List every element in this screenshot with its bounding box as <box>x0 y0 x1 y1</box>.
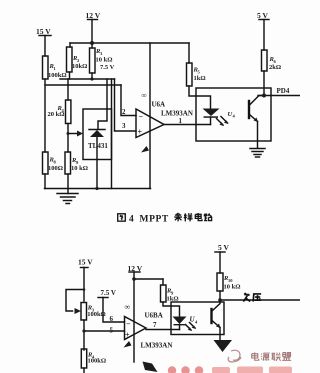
svg-text:5: 5 <box>110 327 114 335</box>
svg-text:1kΩ: 1kΩ <box>194 75 206 82</box>
svg-text:PD4: PD4 <box>277 87 290 95</box>
svg-text:100kΩ: 100kΩ <box>87 311 106 318</box>
svg-text:+: + <box>125 331 130 340</box>
svg-text:10 kΩ: 10 kΩ <box>96 57 113 64</box>
svg-text:100kΩ: 100kΩ <box>88 358 107 365</box>
svg-text:12 V: 12 V <box>128 264 143 273</box>
svg-text:20 kΩ: 20 kΩ <box>48 111 65 118</box>
svg-text:3: 3 <box>122 122 126 130</box>
svg-text:7.5 V: 7.5 V <box>101 289 116 297</box>
svg-text:10: 10 <box>228 278 233 283</box>
svg-text:2kΩ: 2kΩ <box>269 64 281 71</box>
svg-text:5 V: 5 V <box>257 11 268 20</box>
svg-text:MPPT: MPPT <box>140 215 169 225</box>
svg-text:6: 6 <box>110 315 114 323</box>
svg-text:100kΩ: 100kΩ <box>48 72 67 79</box>
svg-text:LM393AN: LM393AN <box>161 110 193 118</box>
svg-text:1: 1 <box>179 117 183 125</box>
svg-text:15 V: 15 V <box>78 258 93 267</box>
svg-text:−: − <box>126 320 131 329</box>
svg-text:−: − <box>139 112 144 121</box>
svg-text:7.5 V: 7.5 V <box>100 64 115 71</box>
svg-text:LM393AN: LM393AN <box>141 342 173 350</box>
svg-text:U6A: U6A <box>152 101 166 109</box>
svg-text:1kΩ: 1kΩ <box>167 296 179 303</box>
svg-text:4: 4 <box>129 215 134 225</box>
svg-text:10kΩ: 10kΩ <box>72 63 87 70</box>
svg-text:10 kΩ: 10 kΩ <box>224 284 241 291</box>
svg-text:100Ω: 100Ω <box>48 165 63 172</box>
svg-text:15 V: 15 V <box>36 27 51 36</box>
svg-text:U6BA: U6BA <box>145 312 163 320</box>
svg-text:7: 7 <box>153 321 157 329</box>
svg-text:∞: ∞ <box>142 92 147 100</box>
svg-text:TL431: TL431 <box>88 142 108 150</box>
svg-text:∞: ∞ <box>125 303 131 312</box>
svg-text:2: 2 <box>122 108 126 116</box>
svg-text:5 V: 5 V <box>218 243 229 252</box>
svg-text:+: + <box>138 128 143 137</box>
svg-text:10 kΩ: 10 kΩ <box>71 165 88 172</box>
svg-text:12 V: 12 V <box>86 11 101 20</box>
